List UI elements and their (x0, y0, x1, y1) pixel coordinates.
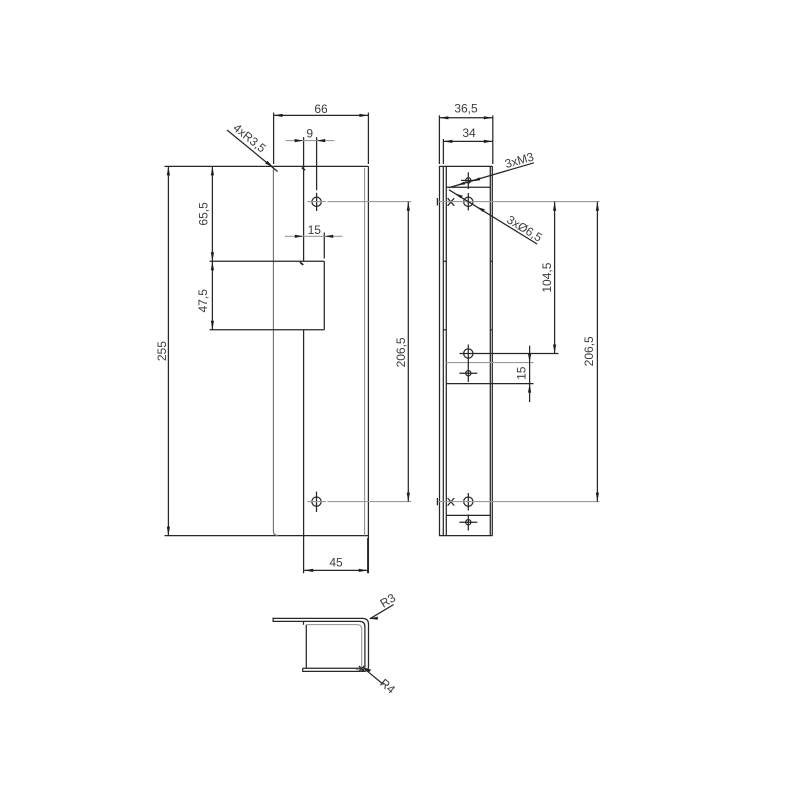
leader 4xR3,5 line (227, 130, 278, 172)
dimension 15 side lower outside arrow (528, 384, 531, 393)
front top hole horizontal centerline gray (307, 201, 411, 203)
svg-text:9: 9 (306, 126, 313, 140)
front bend line upper segment with top extension (303, 137, 305, 261)
notch edge tick right lower (490, 329, 492, 331)
leader 3xO6,5 arrowhead 1 (455, 193, 463, 198)
gray centerline through top holes (437, 201, 599, 203)
dimension 206,5 right line (596, 202, 598, 502)
dimension 104,5 line (554, 202, 556, 354)
front bottom hole horizontal centerline gray (307, 501, 411, 503)
side bottom hole circle (464, 497, 473, 506)
side view lower interior line (446, 514, 490, 516)
side mid holes vertical centerline (467, 345, 469, 383)
side view outer left edge (439, 166, 441, 535)
front plate bottom edge with left extension line (165, 535, 369, 537)
dimension 66 right arrow (359, 114, 368, 117)
dimension 36,5 line (439, 117, 492, 119)
svg-text:104,5: 104,5 (540, 262, 554, 292)
dimension 255 bottom arrow (167, 527, 170, 536)
dimension 206,5 right bottom arrow (596, 493, 599, 502)
svg-text:65,5: 65,5 (197, 202, 211, 226)
side top hole vertical centerline (467, 193, 469, 211)
section box left wall (305, 625, 307, 668)
junction tick at bend line and notch top (299, 262, 304, 266)
side view bottom edge (439, 535, 493, 537)
side bottom M3 hole horizontal centerline (459, 521, 477, 523)
side view mid gray line (446, 362, 533, 364)
side mid M3 hole horizontal centerline (459, 372, 477, 374)
side view top edge (439, 165, 493, 167)
front plate left edge (273, 166, 278, 535)
side view outer right edge (491, 166, 493, 535)
dimension 9 left outside arrow (295, 139, 304, 142)
section X break mark at bottom right (359, 666, 364, 671)
notch bottom edge with left extension (210, 329, 325, 331)
svg-text:15: 15 (308, 223, 322, 237)
dimension 206,5 front line (407, 202, 409, 502)
side top M3 hole vertical centerline (467, 172, 469, 189)
svg-text:R3: R3 (378, 590, 399, 610)
side view upper interior line (446, 186, 490, 188)
side bottom M3 hole vertical centerline (467, 515, 469, 531)
dimension 206,5 front bottom arrow (407, 493, 410, 502)
svg-text:36,5: 36,5 (454, 102, 478, 116)
dimension 36,5 right arrow (484, 116, 493, 119)
leader 3xO6,5 arrowhead 2 (477, 207, 485, 212)
dimension 36,5 right extension (492, 115, 494, 164)
leader 4xR3,5 arrowhead (265, 161, 273, 168)
svg-text:255: 255 (155, 341, 169, 361)
notch top edge with left extension (210, 260, 325, 262)
dimension 34 left arrow (443, 140, 452, 143)
side view inner left line (445, 166, 447, 535)
dimension 66 left arrow (274, 114, 283, 117)
svg-text:15: 15 (515, 366, 529, 380)
dimension 104,5 bottom arrow (553, 345, 556, 354)
svg-text:206,5: 206,5 (582, 336, 596, 366)
notch edge tick left upper (443, 260, 446, 262)
notch edge tick left lower (443, 329, 446, 331)
side bottom hole vertical centerline (467, 493, 469, 511)
leader 3xM3 line (449, 163, 534, 188)
dimension 66 line (274, 114, 369, 116)
dimension 15 side upper outside arrow (528, 354, 531, 363)
section second line and inner right wall (273, 621, 365, 667)
dimension 15 front left outside arrow (295, 235, 304, 238)
front top hole circle (312, 197, 321, 206)
dimension 9 line gray (286, 140, 335, 142)
leader 3xM3 arrowhead 2 (472, 177, 481, 181)
side top hole countersink X mark (448, 198, 455, 206)
front plate right edge with lower extension (367, 166, 369, 573)
dimension 15 front line gray (285, 235, 343, 237)
dimension 9 right outside arrow (316, 139, 325, 142)
dimension 206,5 front top arrow (407, 202, 410, 211)
side view second left line (442, 166, 444, 535)
section face left end cap (272, 618, 274, 622)
leader 3xO6,5 line (449, 190, 537, 244)
dimension 34 line (443, 140, 492, 142)
front bend line lower segment with bottom extension (303, 330, 305, 574)
side bottom M3 hole circle (466, 520, 471, 525)
front top hole vertical centerline (316, 137, 318, 211)
gray centerline through bottom holes (437, 501, 599, 503)
svg-text:66: 66 (314, 102, 328, 116)
dimension 45 right extension (367, 538, 369, 573)
dimension 206,5 right top arrow (596, 202, 599, 211)
notch right edge with upper extension (323, 233, 325, 330)
dimension 47,5 top arrow (211, 261, 214, 270)
svg-text:3xØ6,5: 3xØ6,5 (504, 213, 545, 245)
dimension 65,5 line (211, 166, 213, 261)
gray centerline bottom left end tick (436, 498, 438, 505)
dimension 36,5 left extension (438, 115, 440, 164)
gray centerline top left end tick (436, 198, 438, 206)
svg-text:3xM3: 3xM3 (503, 149, 535, 171)
dimension 15 side line (529, 346, 531, 402)
dimension 45 line (304, 569, 368, 571)
dimension 255 top arrow (167, 166, 170, 175)
dimension 45 left arrow (304, 569, 313, 572)
dimension 34 left extension (442, 139, 444, 164)
side bottom hole countersink X mark (448, 498, 455, 506)
side top M3 hole horizontal centerline (461, 179, 476, 181)
side mid M3 hole circle (466, 371, 471, 376)
dimension 66 right extension (367, 113, 369, 164)
dimension 36,5 left arrow (439, 116, 448, 119)
section gray inner sheet line (306, 625, 361, 670)
junction tick at bend line and top edge (301, 167, 305, 171)
section outer profile top and right (273, 618, 368, 671)
leader R4 line (363, 667, 384, 684)
svg-text:34: 34 (462, 126, 476, 140)
dimension 104,5 top arrow (553, 202, 556, 211)
front bottom hole vertical centerline (316, 492, 318, 512)
svg-text:45: 45 (329, 556, 343, 570)
section step at bend start (303, 621, 305, 624)
svg-text:R4: R4 (377, 676, 398, 697)
front bottom hole circle (312, 497, 321, 506)
section bottom bar bottom edge with left cap (303, 668, 364, 671)
dimension 255 line (167, 166, 169, 535)
side mid hole horizontal centerline with right extension (460, 353, 559, 355)
dimension 65,5 top arrow (211, 166, 214, 175)
side top hole circle (464, 197, 473, 206)
front plate inner right bend tangent line (364, 168, 366, 536)
leader R3 arrowhead (369, 617, 378, 620)
dimension 15 front right outside arrow (324, 235, 333, 238)
dimension 65,5 bottom arrow (211, 252, 214, 261)
dimension 34 right arrow (484, 140, 493, 143)
dimension 45 right arrow (359, 569, 368, 572)
leader 3xM3 arrowhead 1 (457, 182, 466, 186)
leader R3 line (370, 605, 394, 619)
svg-text:47,5: 47,5 (196, 289, 210, 313)
side top M3 hole circle (466, 178, 471, 183)
side view inner right line (489, 166, 491, 535)
svg-text:206,5: 206,5 (394, 337, 408, 367)
dimension 47,5 line (211, 261, 213, 329)
side mid hole circle (464, 349, 473, 358)
section bottom bar top edge (303, 667, 361, 669)
front plate top edge with left extension line (165, 165, 369, 167)
side view mid black line with right extension (446, 383, 533, 385)
leader R4 arrowhead (363, 667, 372, 672)
notch edge tick right upper (490, 260, 492, 262)
dimension 47,5 bottom arrow (211, 321, 214, 330)
dimension 66 left extension (273, 113, 275, 164)
